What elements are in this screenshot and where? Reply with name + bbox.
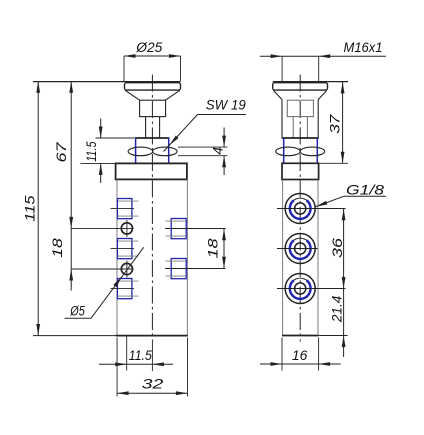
body bottom extension line to the left (115 dim) bbox=[33, 335, 116, 337]
svg-text:36: 36 bbox=[329, 238, 345, 258]
stem left side bbox=[145, 117, 147, 138]
mounting hole o5 lower: vertical axis bbox=[126, 261, 128, 278]
port P2 side profile (front face, middle): port axis line bbox=[111, 248, 135, 250]
stem left side (side view) bbox=[292, 117, 294, 138]
dimension 11.5 (bottom): dimension line with outside arrows bbox=[99, 363, 127, 365]
hex nut SW19 side view: left edge bbox=[283, 138, 285, 163]
dimension 37: lower extension (nut bottom/body top ext) bbox=[319, 162, 348, 164]
dimension 32: dimension line bbox=[117, 392, 187, 394]
port G1/8 middle: thread circle bbox=[290, 238, 311, 259]
dimension 16: right extension line bbox=[318, 338, 320, 371]
stem right side bbox=[159, 117, 161, 138]
valve body top cap (front view) bbox=[116, 163, 187, 179]
mounting hole o5 upper: circle bbox=[121, 223, 132, 234]
port P2 side profile (front face, middle) bbox=[117, 239, 131, 259]
side view cap top line with 37-dim extension bbox=[273, 81, 348, 83]
hex nut SW19: right chamfer ellipse bbox=[153, 147, 178, 156]
mounting hole o5 lower: horizontal axis (to 18 dim) bbox=[71, 268, 133, 270]
dimension 4 (chamfer band): extension line lower bbox=[178, 155, 228, 157]
port P3 side profile (front face, bottom) bbox=[117, 279, 131, 299]
hex nut SW19: right edge bbox=[168, 138, 170, 163]
M16 bushing tube left side bbox=[281, 100, 283, 138]
dimension 37: dimension line bbox=[342, 82, 344, 164]
port P1 side profile (front face, top): thread line lower bbox=[118, 215, 138, 217]
valve body left side bbox=[116, 179, 118, 335]
port G1/8 bottom: thread arc (blue) bbox=[290, 280, 311, 299]
port P3 side profile (front face, bottom): thread line upper bbox=[118, 280, 138, 282]
port G1/8 middle: counterbore circle bbox=[285, 234, 315, 264]
mounting hole o5 upper: horizontal axis (to 67/18 dims) bbox=[71, 227, 133, 229]
hex nut SW19 side view: right edge bbox=[316, 138, 318, 163]
dimension 16: left extension line bbox=[281, 338, 283, 371]
port P2 side profile (front face, middle): thread line upper bbox=[118, 240, 138, 242]
label SW 19: leader line bbox=[164, 115, 198, 152]
port G1/8 bottom: bore circle bbox=[295, 283, 306, 294]
dimension 11.5 (nut height): extension line lower (body top ext) bbox=[81, 162, 116, 164]
port G1/8 top: counterbore circle bbox=[285, 194, 315, 224]
side view cap flange (rounded) bbox=[273, 83, 328, 90]
front view: center line bbox=[151, 75, 153, 342]
button cap skirt trapezoid right side bbox=[165, 90, 179, 100]
port G1/8 bottom: thread circle bbox=[290, 278, 311, 299]
svg-text:18: 18 bbox=[49, 238, 65, 258]
dimension o25: dimension line with arrows bbox=[124, 55, 181, 57]
label G1/8: arrowhead bbox=[316, 201, 328, 207]
svg-text:115: 115 bbox=[22, 195, 38, 221]
dimension 115: dimension line bbox=[37, 81, 39, 336]
port G1/8 bottom: horizontal axis bbox=[277, 288, 346, 290]
port G1/8 top: thread arc (blue) bbox=[290, 200, 311, 219]
dimension 18 (rear ports): dimension line bbox=[223, 229, 225, 269]
side view skirt trapezoid right side bbox=[318, 90, 327, 99]
mounting hole o5 lower: circle bbox=[121, 263, 132, 274]
front view: center line extension for 11.5 dim bbox=[151, 341, 153, 371]
label SW 19: arrowhead bbox=[169, 136, 178, 146]
svg-text:11.5: 11.5 bbox=[83, 141, 99, 161]
button cap skirt trapezoid left side bbox=[125, 90, 139, 100]
dimension 36 / 21.4: shared dimension line bbox=[343, 209, 345, 358]
label G1/8: leader line bbox=[316, 196, 344, 206]
dimension o25: left extension line bbox=[123, 56, 125, 81]
port side profile (rear face, upper): thread line lower bbox=[166, 235, 186, 237]
port G1/8 middle: thread arc (blue) bbox=[290, 240, 311, 259]
body bottom extension to the right (21.4 dim) bbox=[319, 335, 348, 337]
svg-text:Ø25: Ø25 bbox=[135, 39, 162, 55]
dimension 11.5 (nut height): extension line upper bbox=[96, 137, 135, 139]
stem collar (seen in side view) bbox=[287, 100, 313, 116]
mounting hole o5 upper: vertical axis bbox=[126, 220, 128, 237]
dimension 16: dimension line with outside arrows bbox=[260, 363, 282, 365]
valve body top cap (side view) bbox=[282, 163, 319, 179]
svg-text:11.5: 11.5 bbox=[129, 347, 152, 363]
dimension 32: right extension line bbox=[186, 338, 188, 397]
hex nut SW19 side view: right chamfer ellipse bbox=[300, 147, 325, 156]
hex nut SW19: left chamfer ellipse bbox=[128, 147, 153, 156]
svg-text:M16x1: M16x1 bbox=[344, 39, 383, 55]
button cap top line with left extension bbox=[33, 81, 181, 83]
svg-text:32: 32 bbox=[142, 375, 164, 391]
svg-text:18: 18 bbox=[205, 238, 221, 258]
port side profile (rear face, lower): port axis line bbox=[165, 268, 226, 270]
dimension 67 / 18: shared dimension line bbox=[70, 81, 72, 291]
label o5: arrowhead bbox=[113, 277, 121, 287]
dimension 4 (chamfer band): extension line upper bbox=[178, 146, 228, 148]
valve body bottom edge (side view) bbox=[282, 335, 319, 337]
side view: center line bbox=[299, 75, 301, 342]
port side profile (rear face, upper): port axis line bbox=[165, 228, 226, 230]
hex nut SW19: top edge bbox=[135, 137, 170, 139]
port side profile (rear face, upper) bbox=[171, 219, 186, 239]
port G1/8 bottom: counterbore circle bbox=[285, 274, 315, 304]
svg-text:Ø5: Ø5 bbox=[69, 303, 84, 319]
dimension 11.5 (bottom): extension line (hole axis) bbox=[126, 337, 128, 371]
port P1 side profile (front face, top): thread line upper bbox=[118, 200, 138, 202]
port G1/8 middle: bore circle bbox=[295, 243, 306, 254]
svg-text:37: 37 bbox=[327, 113, 343, 133]
valve body right side (side view) bbox=[317, 180, 319, 336]
valve body bottom edge bbox=[116, 335, 188, 337]
label SW 19: underline bbox=[198, 114, 247, 116]
port P3 side profile (front face, bottom): thread line lower bbox=[118, 295, 138, 297]
stem collar bbox=[140, 100, 166, 116]
label o5: leader line through lower hole bbox=[91, 247, 144, 318]
hex nut SW19 side view: left chamfer ellipse bbox=[276, 147, 301, 156]
hex nut SW19 side view: top edge bbox=[282, 137, 319, 139]
port G1/8 top: thread circle bbox=[290, 198, 311, 219]
valve body left side (side view) bbox=[282, 180, 284, 336]
port side profile (rear face, lower): thread line lower bbox=[166, 275, 186, 277]
svg-text:67: 67 bbox=[53, 141, 69, 163]
dimension 32: left extension line bbox=[116, 338, 118, 397]
label G1/8: underline bbox=[344, 195, 386, 197]
dimension 4: dimension line bbox=[223, 128, 225, 148]
dimension o25: right extension line bbox=[180, 56, 182, 81]
dimension M16x1: dimension line with outside arrows bbox=[260, 55, 282, 57]
hex nut SW19: left edge bbox=[135, 138, 137, 163]
svg-text:16: 16 bbox=[292, 347, 308, 363]
valve body right side bbox=[186, 179, 188, 335]
port P3 side profile (front face, bottom): port axis line bbox=[111, 288, 135, 290]
svg-text:G1/8: G1/8 bbox=[346, 182, 384, 198]
dimension M16x1: right extension line bbox=[318, 56, 320, 81]
port G1/8 top: bore circle bbox=[295, 203, 306, 214]
dimension 11.5 (nut height): dimension line bbox=[100, 119, 102, 139]
svg-text:SW 19: SW 19 bbox=[206, 97, 246, 113]
port G1/8 top: horizontal axis bbox=[277, 208, 346, 210]
port P1 side profile (front face, top): port axis line bbox=[111, 208, 135, 210]
port side profile (rear face, lower) bbox=[171, 259, 186, 279]
svg-text:21.4: 21.4 bbox=[329, 295, 345, 323]
port P1 side profile (front face, top) bbox=[117, 199, 131, 219]
M16 bushing tube right side bbox=[317, 100, 319, 138]
label o5: underline bbox=[65, 317, 92, 319]
port side profile (rear face, lower): thread line upper bbox=[166, 260, 186, 262]
button cap flange (rounded) bbox=[125, 83, 181, 90]
side view skirt trapezoid left side bbox=[273, 90, 282, 99]
svg-text:4: 4 bbox=[210, 147, 226, 155]
port side profile (rear face, upper): thread line upper bbox=[166, 220, 186, 222]
stem right side (side view) bbox=[306, 117, 308, 138]
port G1/8 middle: horizontal axis bbox=[277, 248, 318, 250]
dimension M16x1: left extension line bbox=[281, 56, 283, 81]
port P2 side profile (front face, middle): thread line lower bbox=[118, 255, 138, 257]
